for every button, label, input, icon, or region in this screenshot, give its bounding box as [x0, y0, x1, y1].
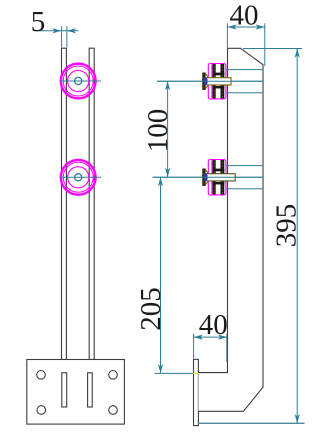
svg-text:100: 100 — [142, 109, 174, 153]
svg-text:205: 205 — [135, 287, 167, 331]
svg-text:40: 40 — [230, 0, 259, 31]
svg-text:5: 5 — [31, 6, 46, 38]
svg-text:40: 40 — [199, 309, 228, 341]
svg-text:395: 395 — [270, 204, 302, 248]
